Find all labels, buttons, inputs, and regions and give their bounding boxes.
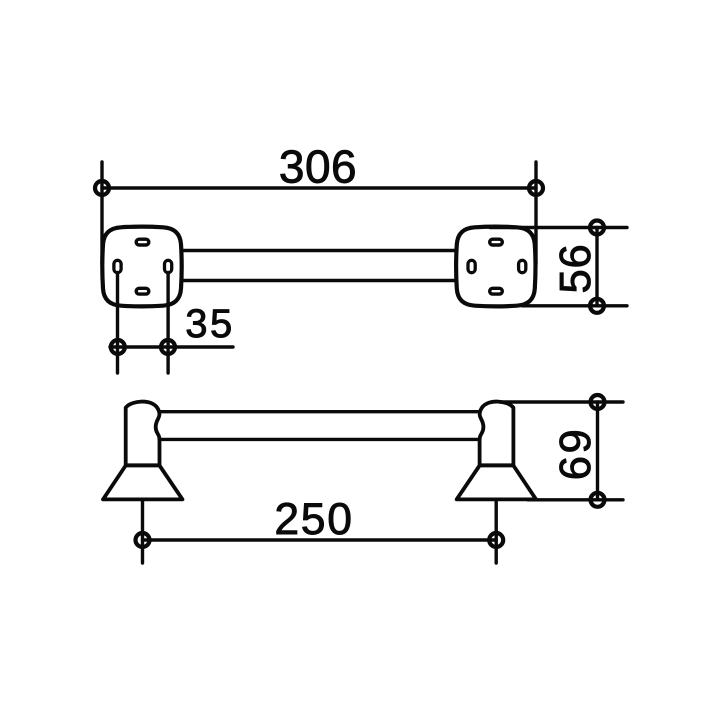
svg-text:35: 35 xyxy=(185,302,235,346)
svg-text:306: 306 xyxy=(279,141,357,193)
svg-text:250: 250 xyxy=(274,495,353,544)
svg-text:69: 69 xyxy=(552,427,600,480)
svg-text:56: 56 xyxy=(552,244,600,294)
